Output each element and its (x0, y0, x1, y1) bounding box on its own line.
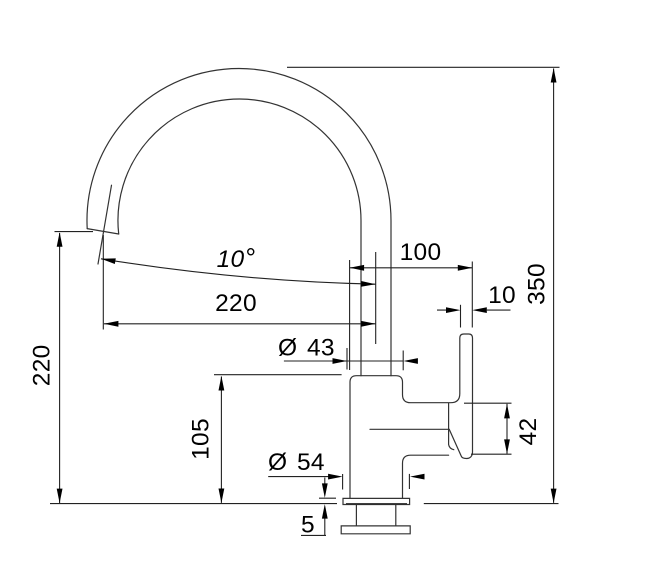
dim 220 vertical bottom arrowhead (57, 489, 63, 504)
dim 10 left arrowhead (446, 307, 461, 313)
dim 5 lower arrow tail and shelf (301, 519, 326, 536)
svg-text:42: 42 (515, 418, 542, 446)
dim 220 horizontal left arrowhead (104, 321, 119, 327)
body lower-right edge and arm bottom (403, 455, 449, 498)
top extension line (350) (287, 66, 560, 68)
dim 105 bottom arrowhead (219, 489, 225, 504)
dim 10deg right arrowhead (361, 281, 376, 287)
svg-text:220: 220 (215, 290, 257, 317)
dim 220 horizontal line (104, 323, 376, 325)
svg-text:Ø 54: Ø 54 (268, 449, 325, 476)
dim 220 vertical top arrowhead (57, 232, 63, 247)
svg-text:Ø 43: Ø 43 (278, 334, 335, 361)
base stem (356, 505, 395, 526)
dim D43 right tick (402, 351, 404, 371)
mounting flange (343, 498, 410, 504)
dim 220 horizontal right arrowhead (361, 321, 376, 327)
faucet spout inner arc (118, 99, 361, 376)
dim 220 vertical extension (55, 231, 94, 233)
dim 42 bottom extension (471, 453, 512, 455)
svg-text:5: 5 (301, 512, 315, 539)
dim 350 top arrowhead (551, 68, 557, 83)
dim 220 vertical line (59, 233, 61, 503)
countertop line under flange (346, 503, 407, 505)
dim 5 lower arrowhead (322, 504, 328, 518)
faucet body, side arm and handle lever outline (350, 334, 473, 498)
dim D43 right arrowhead (403, 358, 418, 364)
dim 350 bottom arrowhead (551, 489, 557, 504)
dim 5 upper arrow tail (324, 478, 326, 484)
spout tip cut edge (87, 229, 119, 234)
countertop line right (424, 503, 559, 505)
dim D54 left arrowhead (328, 474, 343, 480)
dim 100 right arrowhead (458, 265, 473, 271)
svg-text:350: 350 (524, 263, 551, 305)
dim 5 flange-top tick (319, 497, 336, 499)
handle axis line (370, 428, 449, 430)
svg-text:220: 220 (29, 344, 56, 386)
dim D54 shelf line (268, 476, 330, 478)
dim D43 left arrowhead (333, 358, 348, 364)
dim 350 line (553, 69, 555, 503)
dim 10 left tick (460, 305, 462, 328)
spout tip axis reference line (10 deg) (98, 185, 112, 264)
dim D54 left tick (342, 474, 344, 490)
dim 220 horizontal: tip extension line (102, 235, 104, 330)
faucet spout outer arc (87, 69, 391, 376)
dim 10 line with outside arrows (437, 309, 511, 311)
dim 5 upper arrowhead (322, 483, 328, 498)
dim 42 top extension (464, 402, 512, 404)
spout centerline extension (375, 252, 377, 344)
dim D43 shelf line (284, 360, 403, 362)
svg-text:10: 10 (488, 282, 516, 309)
dim 10deg left arrowhead (101, 256, 116, 264)
10 deg angle arc (101, 259, 376, 284)
dim 105 line (220, 377, 222, 503)
svg-text:10°: 10° (217, 243, 256, 273)
dim 100 right extension (471, 262, 473, 328)
svg-text:105: 105 (188, 418, 215, 460)
dim D54 right arrowhead (410, 474, 425, 480)
dim 100 left extension (349, 260, 351, 370)
dim 10 right arrowhead (472, 307, 487, 313)
base washer (341, 526, 410, 534)
dim D43 left tick (346, 348, 348, 370)
countertop line left (50, 503, 337, 505)
dim 42 line (506, 404, 508, 454)
handle hub left edge (449, 403, 454, 449)
dim 105 top arrowhead (219, 376, 225, 391)
dim 100 left arrowhead (350, 265, 365, 271)
dim 42 top arrowhead (504, 404, 510, 419)
dim 42 bottom arrowhead (504, 439, 510, 454)
dim 100 line (350, 267, 473, 269)
dim 105 top extension (214, 374, 342, 376)
svg-text:100: 100 (400, 239, 442, 266)
dim D54 right tick (408, 474, 410, 489)
